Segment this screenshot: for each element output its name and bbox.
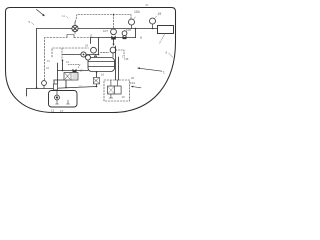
wire: bottom left pipe to tank [27,87,97,89]
dashed pilot line (top) [76,15,132,22]
svg-text:8: 8 [166,51,168,55]
svg-text:9: 9 [140,36,142,40]
wire: line B [91,37,136,39]
sensor circle on dashed drop [42,81,47,86]
svg-text:104: 104 [134,10,140,14]
svg-text:7: 7 [159,41,161,45]
svg-text:40: 40 [145,3,149,7]
tank [49,91,78,108]
svg-text:11: 11 [90,34,93,38]
dashed box D1 [45,38,68,81]
svg-text:15: 15 [47,59,50,63]
control box 7 [158,26,174,34]
label 11 tick [67,17,69,19]
pump circle B (93.5,50.2) [91,47,97,53]
svg-text:38: 38 [131,76,134,80]
pointer arrow 4 (top left) [37,10,45,16]
wire: drop x135 to line B [135,29,137,38]
dashed box D2 [52,48,89,57]
valve 107 assembly (circle actuator + body) [111,29,117,35]
svg-text:11: 11 [51,109,54,113]
svg-text:14: 14 [66,60,70,64]
wire: block bottom drop [65,80,67,87]
label 8 tick at right border [169,53,174,58]
gauge circle 104 [129,19,135,25]
wire: manifold line y=70.5 [58,70,89,72]
svg-text:107: 107 [103,29,108,33]
svg-text:134: 134 [130,81,135,85]
label 5 tick [32,23,35,26]
svg-text:10: 10 [122,95,126,99]
dashed link right of pump [116,50,125,56]
solenoid valve squares [108,86,115,94]
pump circle below (112.5,50) [110,47,116,53]
strainer circle in tank [55,95,60,100]
svg-text:19: 19 [80,69,84,73]
svg-text:18: 18 [46,66,49,70]
svg-text:1: 1 [163,71,165,75]
valve 100 assembly [122,31,127,36]
dashed pilot to bowtie [68,65,80,69]
wire: vertical x98 [98,38,100,55]
tank internal ticks [56,100,59,104]
mid solid line y=54.8 [63,54,99,56]
svg-text:100: 100 [126,28,131,32]
wire: left down pipe [36,29,38,89]
pressure switch bump on D1 [67,35,74,38]
svg-text:19: 19 [158,12,162,16]
tank filler neck [54,84,58,90]
wire: right twin verticals to solenoid box [115,46,117,80]
svg-text:138: 138 [124,57,129,61]
bowtie valve on manifold line [73,69,77,73]
svg-text:11: 11 [62,14,65,18]
valve block rect [64,73,78,81]
valve V1 (circle with X) on line A [72,25,78,31]
wire: short line left of block [54,79,64,81]
svg-text:16: 16 [101,73,105,77]
reference arrow 1 (right) [139,68,163,71]
solenoid valve dashed box [104,80,130,101]
arrow pointing at solenoid box [132,87,141,88]
svg-text:5: 5 [29,20,31,24]
svg-text:15: 15 [79,85,82,89]
wire: main supply line A [37,28,158,30]
pump box on drop [93,78,99,84]
enclosure outline (vehicle body border) [6,8,176,113]
flow arrow on bottom pipe [36,87,38,89]
cap circle on cooler top-left [86,55,91,60]
wire: vertical x62 lower [62,60,64,70]
junction x135 [135,28,137,30]
svg-text:17: 17 [60,109,64,113]
dashed drop x62 [61,48,63,60]
wire: left stub down [26,89,28,97]
wire: drop below valve 107 with arrow [113,40,115,46]
wire: vertical x57 [57,63,59,84]
dashed branch down to valve 107 [113,15,115,29]
wire: cooler bottom drop x96 [96,72,98,87]
valve circle on mid line [81,52,86,57]
svg-text:18: 18 [85,44,89,48]
dashed link left of pump [101,51,110,53]
cooler / reservoir block [88,58,115,72]
gauge circle 19 [150,18,156,24]
